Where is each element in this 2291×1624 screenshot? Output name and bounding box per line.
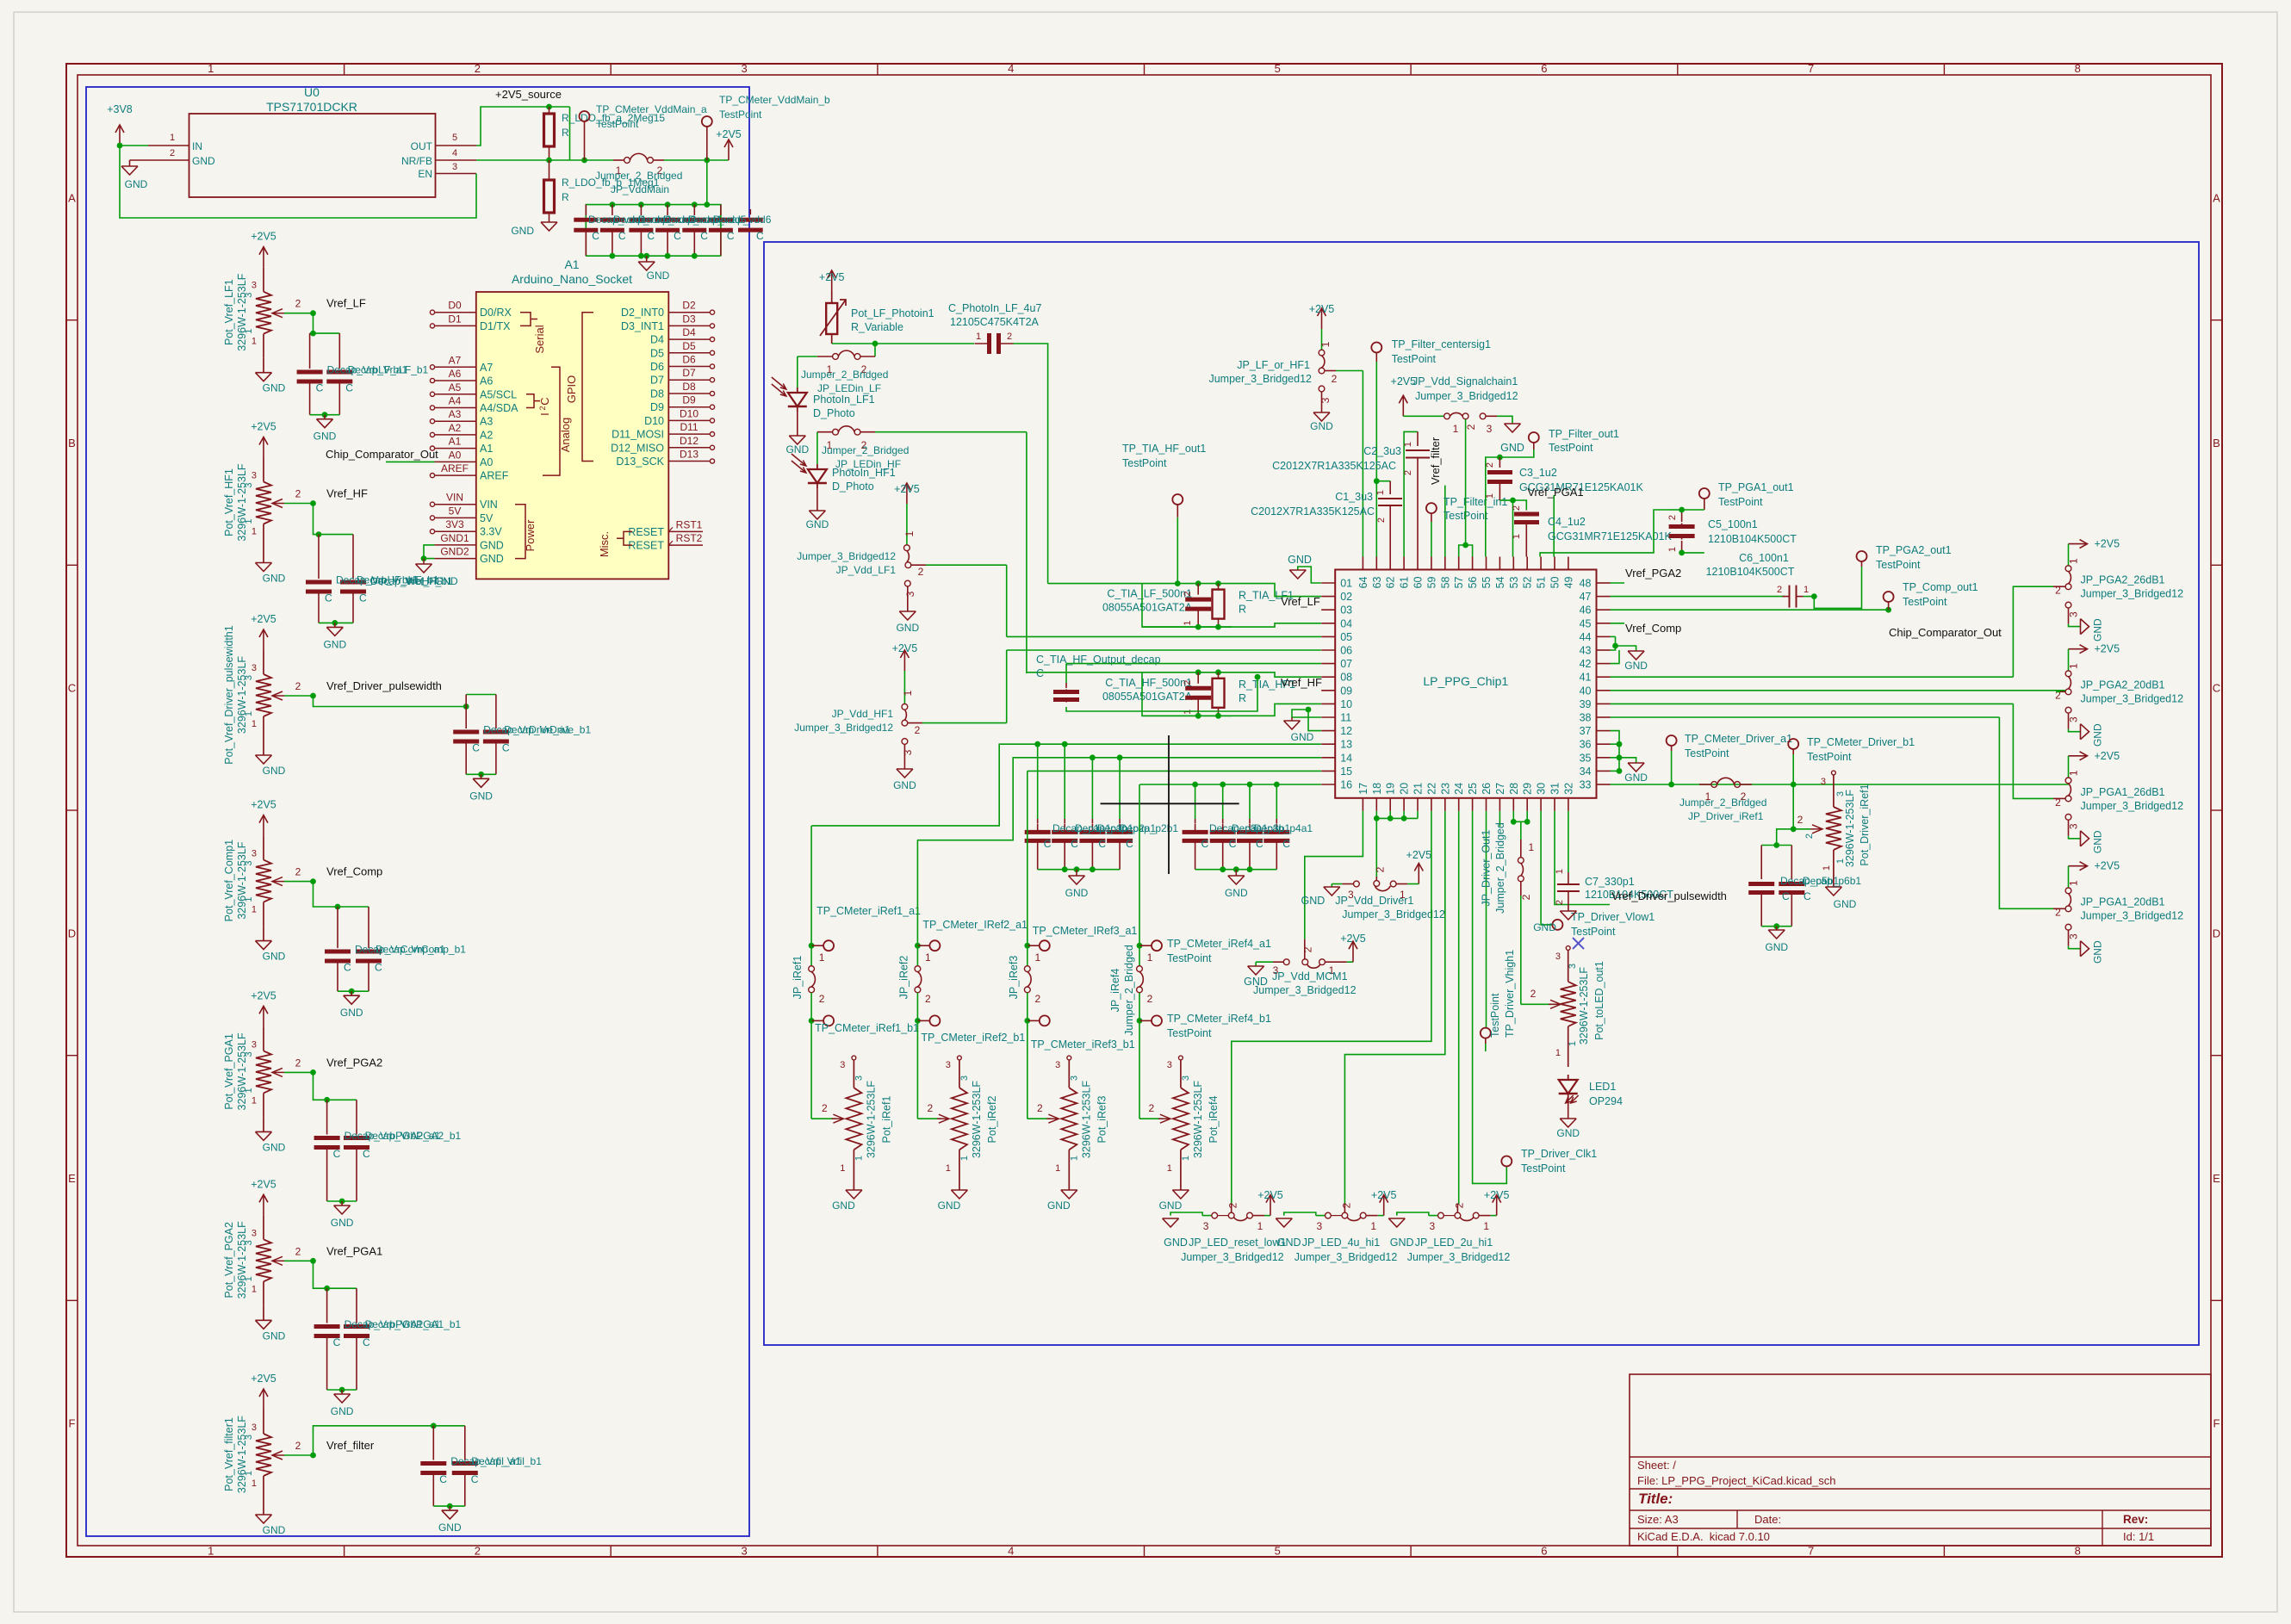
svg-text:TP_Filter_in1: TP_Filter_in1: [1444, 496, 1507, 508]
svg-text:C: C: [1201, 838, 1209, 850]
svg-text:C3_1u2: C3_1u2: [1519, 467, 1557, 479]
svg-text:Misc.: Misc.: [598, 531, 611, 557]
arduino pin A4: [435, 407, 476, 409]
jumper JP_iRef4 Jumper_2_Bridged vertical: [1139, 945, 1140, 966]
svg-text:3296W-1-253LF: 3296W-1-253LF: [236, 273, 248, 350]
svg-text:1: 1: [1512, 534, 1522, 539]
junction photoin: [872, 341, 879, 347]
decap cluster for Pot_Vref_Driver_pulsewidth1: [466, 694, 496, 696]
ground below PhotoIn_LF1: [797, 412, 798, 436]
svg-text:C2_3u3: C2_3u3: [1363, 445, 1401, 457]
svg-text:VIN: VIN: [446, 492, 463, 504]
testpoint TP_Filter_centersig1: [1371, 343, 1381, 353]
svg-text:D8: D8: [650, 388, 664, 400]
svg-text:D0/RX: D0/RX: [480, 307, 512, 319]
power +2V5 for Pot_Vref_LF1: [263, 247, 264, 268]
svg-text:Pot_Vref_HF1: Pot_Vref_HF1: [223, 468, 235, 536]
svg-text:A0: A0: [449, 449, 462, 461]
svg-text:2: 2: [1465, 424, 1477, 430]
capacitor Decap_vdd7 stub: [738, 218, 763, 222]
svg-text:C: C: [1098, 838, 1106, 850]
testpoint TP_TIA_HF_out1: [1177, 505, 1178, 518]
svg-text:JP_iRef3: JP_iRef3: [1008, 956, 1020, 1000]
chip pin 38: [1597, 716, 1611, 718]
decap cluster for Pot_Vref_HF1: [319, 534, 353, 536]
jumper JP_Vdd_HF1 Jumper_3_Bridged12: [903, 671, 905, 704]
svg-text:Decap_VrDrive_b1: Decap_VrDrive_b1: [504, 724, 591, 736]
svg-text:34: 34: [1580, 766, 1592, 778]
svg-text:JP_Driver_iRef1: JP_Driver_iRef1: [1688, 810, 1764, 822]
junction wiper Pot_Vref_PGA1: [310, 1069, 316, 1075]
svg-text:1: 1: [251, 527, 257, 537]
svg-text:3: 3: [2068, 611, 2080, 617]
testpoint TP_Filter_in1: [1426, 503, 1437, 513]
svg-text:1: 1: [1257, 1220, 1263, 1232]
arduino pin D12: [668, 447, 710, 449]
svg-text:OUT: OUT: [411, 140, 433, 152]
ground JP_Vdd_MCM1: [1248, 965, 1264, 967]
svg-text:LED1: LED1: [1589, 1081, 1616, 1093]
svg-text:3: 3: [741, 62, 747, 75]
ground arduino: [423, 559, 425, 564]
svg-text:46: 46: [1580, 604, 1592, 617]
svg-text:D12: D12: [680, 435, 698, 447]
svg-text:TP_CMeter_iRef4_a1: TP_CMeter_iRef4_a1: [1167, 938, 1271, 950]
wiper of Pot_Vref_filter1: [272, 1451, 282, 1460]
svg-text:GND: GND: [1390, 1237, 1414, 1249]
wire pin25 to TP_Driver_Clk: [1473, 811, 1507, 1184]
junction wiper Pot_Vref_Driver_pulsewidth1: [310, 693, 316, 699]
svg-text:GND: GND: [1533, 921, 1556, 933]
svg-text:Vref_Comp: Vref_Comp: [326, 865, 382, 878]
svg-text:A1: A1: [449, 436, 462, 448]
svg-text:2: 2: [1034, 993, 1040, 1005]
capacitor Decap_p3a1: [1195, 819, 1196, 823]
svg-text:JP_Vdd_Signalchain1: JP_Vdd_Signalchain1: [1412, 375, 1518, 387]
svg-text:3296W-1-253LF: 3296W-1-253LF: [1192, 1081, 1204, 1158]
svg-text:JP_LED_4u_hi1: JP_LED_4u_hi1: [1302, 1237, 1380, 1249]
chip pin 25: [1472, 798, 1474, 811]
svg-text:Decap_p2b1: Decap_p2b1: [1120, 822, 1178, 834]
svg-text:1: 1: [1147, 951, 1153, 964]
svg-text:2: 2: [475, 62, 481, 75]
chip LP_PPG_Chip1: [1335, 570, 1596, 798]
svg-text:JP_iRef4: JP_iRef4: [1109, 969, 1121, 1013]
svg-text:45: 45: [1580, 617, 1592, 629]
junction decap vdd top: [638, 201, 644, 208]
wire to Pot_iRef2: [916, 1020, 918, 1119]
testpoint TP_CMeter_Driver_a1: [1668, 782, 1674, 788]
svg-text:File: LP_PPG_Project_KiCad.kic: File: LP_PPG_Project_KiCad.kicad_sch: [1637, 1474, 1836, 1487]
svg-text:1: 1: [902, 690, 914, 696]
chip pin 61: [1403, 557, 1405, 570]
wire wiper to caps Pot_Vref_PGA1: [314, 1072, 327, 1100]
svg-text:C: C: [345, 382, 353, 394]
testpoint TP_CMeter_VddMain_a: [581, 158, 587, 164]
svg-text:GND: GND: [263, 382, 286, 394]
svg-text:TP_Filter_centersig1: TP_Filter_centersig1: [1392, 338, 1491, 350]
svg-text:GND: GND: [2092, 723, 2104, 747]
potentiometer Pot_Vref_PGA1 3296W-1-253LF: [263, 1026, 264, 1051]
svg-text:EN: EN: [418, 168, 432, 180]
wire pin 58 vertical: [1444, 486, 1446, 557]
svg-text:2: 2: [1797, 814, 1804, 826]
chip pin 64: [1362, 557, 1363, 570]
chip pin 04: [1321, 623, 1335, 624]
wire pin47 to C6: [1611, 596, 1785, 598]
svg-text:JP_PGA1_20dB1: JP_PGA1_20dB1: [2081, 896, 2165, 908]
wire pin 05 long: [1007, 635, 1321, 637]
jumper JP_iRef3 Jumper_2_Bridged vertical: [1027, 945, 1028, 966]
svg-text:JP_iRef2: JP_iRef2: [897, 956, 910, 1000]
svg-text:TP_PGA1_out1: TP_PGA1_out1: [1718, 481, 1794, 493]
svg-text:5: 5: [1275, 62, 1281, 75]
svg-text:JP_LED_2u_hi1: JP_LED_2u_hi1: [1415, 1237, 1493, 1249]
jumper JP_LED_4u_hi1 Jumper_3_Bridged12: [1276, 1218, 1292, 1219]
wire cap to chip D1: [1014, 344, 1048, 584]
decap group bottom rail: [1038, 869, 1120, 871]
arduino pin RST1: [668, 530, 703, 532]
svg-text:Rev:: Rev:: [2123, 1513, 2148, 1526]
power +2V5 JP_LED_2u_hi1: [1496, 1195, 1498, 1216]
svg-text:D7: D7: [650, 375, 664, 387]
svg-text:TP_CMeter_Driver_b1: TP_CMeter_Driver_b1: [1807, 736, 1915, 748]
chip pin 55: [1486, 557, 1487, 570]
svg-text:1: 1: [251, 1478, 257, 1489]
svg-text:+3V8: +3V8: [107, 103, 133, 115]
testpoint TestPoint TP_Driver_Vhigh1: [1481, 1028, 1491, 1038]
svg-text:2: 2: [1147, 993, 1153, 1005]
svg-text:OP294: OP294: [1589, 1095, 1623, 1107]
chip pin 51: [1540, 557, 1542, 570]
chip pin 46: [1597, 609, 1611, 611]
jumper JP_Driver_Out1 Jumper_2_Bridged vertical: [1520, 821, 1522, 840]
svg-text:Chip_Comparator_Out: Chip_Comparator_Out: [326, 448, 438, 461]
svg-text:JP_Vdd_Driver1: JP_Vdd_Driver1: [1335, 895, 1413, 907]
svg-text:Vref_filter: Vref_filter: [1429, 437, 1442, 485]
svg-text:GND: GND: [1159, 1199, 1183, 1212]
chip pin 16: [1321, 784, 1335, 785]
arduino pin D5: [668, 352, 710, 354]
wire wiper to caps Pot_Vref_Comp1: [314, 882, 338, 907]
ground decap pb: [1761, 926, 1791, 927]
svg-text:GND: GND: [1164, 1237, 1188, 1249]
wire +3V8 to IN: [120, 145, 148, 146]
svg-text:13: 13: [1340, 739, 1352, 751]
svg-text:01: 01: [1340, 578, 1352, 590]
svg-text:2: 2: [295, 298, 301, 310]
svg-text:1: 1: [208, 1545, 214, 1558]
svg-text:D6: D6: [650, 361, 664, 373]
arduino pin D0: [435, 312, 476, 313]
svg-text:VIN: VIN: [480, 499, 498, 511]
bottom rail TIA Vref_HF: [1142, 715, 1232, 716]
decap cluster for Pot_Vref_Comp1: [338, 906, 369, 908]
wire pin33 long: [1611, 784, 2069, 785]
svg-text:C: C: [674, 230, 681, 242]
power +2V5 JP_PGA2_26dB1: [2069, 543, 2088, 545]
svg-text:2: 2: [1149, 1102, 1155, 1114]
svg-text:3: 3: [452, 162, 457, 172]
svg-text:Analog: Analog: [559, 418, 572, 452]
photodiode PhotoIn_HF1 D_Photo: [816, 432, 818, 464]
wire pin 06 long: [1007, 649, 1321, 651]
power +2V5 JP_PGA2_20dB1: [2069, 648, 2088, 650]
ground C7: [1560, 910, 1576, 912]
svg-text:D9: D9: [650, 401, 664, 413]
svg-text:8: 8: [2075, 62, 2081, 75]
svg-text:GND: GND: [192, 155, 215, 167]
svg-text:3: 3: [251, 1039, 257, 1050]
svg-text:A2: A2: [449, 422, 462, 434]
svg-text:TP_CMeter_iRef1_a1: TP_CMeter_iRef1_a1: [816, 905, 921, 917]
svg-text:C: C: [363, 1336, 370, 1348]
ground below Pot_Vref_PGA1: [256, 1131, 272, 1132]
wire column JP_iRef1: [810, 826, 812, 945]
svg-text:A6: A6: [449, 368, 462, 380]
svg-text:41: 41: [1580, 672, 1592, 684]
power +2V5 for Pot_Vref_PGA1: [263, 1006, 264, 1026]
svg-text:2: 2: [295, 680, 301, 692]
svg-text:27: 27: [1494, 783, 1506, 795]
junction TP b: [704, 158, 710, 164]
wire TP_Driver_Vhigh to pot pin2 line: [1485, 1044, 1487, 1051]
capacitor Decap_p4a1: [1249, 819, 1251, 823]
chip pin 58: [1444, 557, 1446, 570]
wire wiper Pot_toLED: [1521, 1003, 1558, 1005]
svg-text:A3: A3: [480, 416, 493, 428]
wire column JP_iRef3: [1027, 771, 1028, 945]
svg-text:Vref_PGA2: Vref_PGA2: [1625, 567, 1681, 580]
potentiometer Pot_Driver_iRef1: [1832, 771, 1836, 775]
svg-text:Decap_VrbHF_b1: Decap_VrbHF_b1: [357, 574, 439, 586]
svg-text:+2V5: +2V5: [1309, 303, 1335, 315]
wire wiper to caps Pot_Vref_PGA2: [314, 1261, 327, 1288]
svg-text:GND: GND: [438, 1522, 462, 1534]
svg-text:3296W-1-253LF: 3296W-1-253LF: [236, 841, 248, 919]
svg-text:GND: GND: [263, 951, 286, 963]
svg-text:+2V5: +2V5: [1340, 933, 1366, 945]
svg-text:C: C: [1126, 838, 1133, 850]
svg-text:GND: GND: [314, 431, 337, 443]
svg-text:Jumper_3_Bridged12: Jumper_3_Bridged12: [1208, 373, 1312, 385]
svg-text:Date:: Date:: [1754, 1513, 1781, 1526]
U0 pin 3 EN: [436, 173, 477, 175]
variable resistor Pot_LF_Photoin1 R_Variable: [831, 291, 833, 303]
chip pin 43: [1597, 649, 1611, 651]
svg-text:C6_100n1: C6_100n1: [1739, 552, 1789, 564]
testpoint TP_CMeter_iRef1_b1: [810, 993, 812, 1021]
svg-text:D: D: [2213, 927, 2220, 939]
capacitor Decap_p4b1: [1276, 819, 1277, 823]
ground decap group: [1235, 870, 1237, 876]
svg-text:A: A: [2213, 191, 2220, 204]
chip pin 45: [1597, 623, 1611, 624]
wire TIA LF to chip rows: [1142, 584, 1232, 628]
svg-text:TestPoint: TestPoint: [1903, 596, 1947, 608]
svg-text:GND: GND: [1301, 895, 1326, 907]
chip pin 03: [1321, 609, 1335, 611]
chip pin 01: [1321, 582, 1335, 584]
svg-text:+2V5: +2V5: [716, 128, 742, 140]
svg-text:3: 3: [902, 749, 914, 755]
svg-text:2: 2: [1340, 1202, 1352, 1208]
svg-text:C: C: [375, 962, 382, 974]
svg-text:C_PhotoIn_LF_4u7: C_PhotoIn_LF_4u7: [948, 302, 1041, 314]
svg-text:2: 2: [1530, 988, 1537, 1000]
arduino pin D3: [668, 325, 710, 326]
svg-text:C: C: [1804, 890, 1811, 902]
testpoint TP_CMeter_iRef4_b1: [1139, 993, 1140, 1021]
svg-text:3296W-1-253LF: 3296W-1-253LF: [1578, 967, 1590, 1044]
chip pin 12: [1321, 730, 1335, 732]
svg-text:D7: D7: [682, 367, 696, 379]
svg-text:14: 14: [1340, 752, 1352, 764]
jumper JP_LED_2u_hi1 Jumper_3_Bridged12: [1388, 1218, 1405, 1219]
decap rails top: [1037, 744, 1039, 819]
chip pin 30: [1540, 798, 1542, 811]
svg-text:64: 64: [1357, 576, 1369, 588]
chip pin 15: [1321, 770, 1335, 772]
chip pin 48: [1597, 582, 1611, 584]
arduino pin AREF: [435, 474, 476, 476]
svg-text:JP_iRef1: JP_iRef1: [792, 956, 804, 1000]
svg-text:5V: 5V: [480, 512, 494, 524]
svg-text:C5_100n1: C5_100n1: [1708, 518, 1758, 530]
svg-text:Vref_PGA1: Vref_PGA1: [1527, 486, 1583, 499]
testpoint TP_Comp_out1: [1885, 607, 1891, 613]
svg-text:2: 2: [1037, 1102, 1043, 1114]
svg-text:+2V5: +2V5: [2095, 643, 2120, 655]
svg-text:A7: A7: [480, 362, 493, 374]
svg-text:3296W-1-253LF: 3296W-1-253LF: [236, 656, 248, 734]
svg-text:A0: A0: [480, 456, 493, 468]
wire col50 Vref_PGA1: [1553, 495, 1555, 557]
svg-text:A2: A2: [480, 429, 493, 441]
wire to Pot_iRef4: [1139, 1020, 1140, 1119]
svg-text:2: 2: [928, 1102, 934, 1114]
svg-text:D1/TX: D1/TX: [480, 320, 511, 332]
svg-text:JP_VddMain: JP_VddMain: [611, 183, 669, 195]
svg-text:2: 2: [170, 148, 175, 158]
svg-text:Pot_iRef2: Pot_iRef2: [986, 1096, 998, 1144]
svg-text:Pot_LF_Photoin1: Pot_LF_Photoin1: [851, 307, 934, 319]
svg-text:24: 24: [1453, 783, 1465, 795]
svg-text:2: 2: [538, 406, 547, 410]
resistor R_LDO_fb_a_2Meg15: [549, 107, 550, 114]
wiper of Pot_Vref_PGA1: [272, 1068, 282, 1076]
svg-text:C: C: [316, 382, 324, 394]
power +2V5 for Pot_Vref_HF1: [263, 437, 264, 458]
svg-text:Decap_vdd6: Decap_vdd6: [713, 214, 772, 226]
jumper JP_iRef1 Jumper_2_Bridged vertical: [810, 945, 812, 966]
wire pin26 TP_Driver_Vhigh: [1486, 811, 1487, 1028]
svg-text:1: 1: [1528, 841, 1534, 853]
capacitor Decap_p1a1: [1037, 819, 1039, 823]
svg-text:Pot_Vref_filter1: Pot_Vref_filter1: [223, 1417, 235, 1491]
svg-text:U0: U0: [304, 85, 320, 99]
testpoint TP_PGA1_out1: [1699, 488, 1710, 499]
svg-text:2: 2: [1403, 470, 1413, 475]
svg-text:+2V5: +2V5: [2095, 860, 2120, 872]
wiper of Pot_Vref_HF1: [272, 499, 282, 508]
svg-text:Jumper_2_Bridged: Jumper_2_Bridged: [595, 170, 682, 182]
svg-text:Size: A3: Size: A3: [1637, 1513, 1679, 1526]
svg-text:D: D: [68, 927, 76, 939]
power +2V5 JP_LED_4u_hi1: [1383, 1195, 1385, 1216]
junction wiper Pot_Vref_filter1: [310, 1453, 316, 1459]
svg-text:GND: GND: [480, 553, 504, 565]
svg-text:D3_INT1: D3_INT1: [621, 320, 664, 332]
svg-text:GND: GND: [1277, 1237, 1301, 1249]
potentiometer Pot_Vref_PGA2 3296W-1-253LF: [263, 1215, 264, 1239]
svg-text:Vref_filter: Vref_filter: [326, 1439, 375, 1452]
svg-text:TestPoint: TestPoint: [1521, 1162, 1566, 1175]
chip pin 54: [1499, 557, 1500, 570]
svg-text:1: 1: [840, 1163, 845, 1174]
svg-text:TestPoint: TestPoint: [1392, 353, 1437, 365]
chip pin 17: [1362, 798, 1363, 811]
svg-text:C: C: [359, 592, 367, 604]
junction decap vdd top: [610, 201, 616, 208]
svg-text:JP_Driver_Out1: JP_Driver_Out1: [1480, 829, 1492, 906]
svg-text:08055A501GAT2A: 08055A501GAT2A: [1102, 602, 1193, 614]
wire wiper to caps Pot_Vref_filter1: [314, 1426, 434, 1455]
testpoint TP_CMeter_IRef3_a1: [1024, 943, 1030, 949]
svg-text:Decap_VrbPGA1_b1: Decap_VrbPGA1_b1: [365, 1318, 462, 1330]
svg-text:2: 2: [1555, 900, 1565, 905]
svg-text:42: 42: [1580, 658, 1592, 670]
svg-text:GPIO: GPIO: [565, 375, 578, 404]
svg-text:GND: GND: [785, 443, 809, 456]
svg-text:3296W-1-253LF: 3296W-1-253LF: [236, 1416, 248, 1493]
svg-text:D4: D4: [650, 334, 664, 346]
ground JP_Vdd_HF1: [897, 768, 913, 770]
svg-text:3296W-1-253LF: 3296W-1-253LF: [236, 463, 248, 541]
svg-text:Jumper_2_Bridged: Jumper_2_Bridged: [1494, 822, 1506, 914]
svg-text:21: 21: [1412, 783, 1425, 795]
svg-text:56: 56: [1467, 576, 1479, 588]
capacitor Decap_vdd5: [693, 205, 695, 215]
svg-text:D8: D8: [682, 381, 696, 393]
arduino pin D4: [668, 338, 710, 340]
svg-text:D_Photo: D_Photo: [813, 407, 855, 419]
svg-text:1: 1: [1167, 1163, 1172, 1174]
power +2V5 JP_Vdd_LF1: [906, 483, 908, 504]
svg-text:2: 2: [295, 488, 301, 500]
decap rail bottom: [586, 255, 721, 257]
chip pin 14: [1321, 757, 1335, 759]
svg-text:+2V5: +2V5: [894, 483, 920, 495]
svg-text:GND: GND: [1225, 887, 1248, 899]
svg-text:F: F: [69, 1417, 76, 1430]
svg-text:GND: GND: [2092, 830, 2104, 853]
svg-text:Jumper_3_Bridged12: Jumper_3_Bridged12: [1295, 1251, 1398, 1263]
chip pin 49: [1568, 557, 1569, 570]
arduino pin D6: [668, 366, 710, 368]
wiper of Pot_Vref_Comp1: [272, 877, 282, 886]
U0 pin 5 OUT: [436, 145, 477, 146]
svg-text:GND: GND: [647, 270, 670, 282]
svg-text:3: 3: [1821, 777, 1826, 787]
svg-text:Vref_HF: Vref_HF: [1281, 676, 1322, 689]
potentiometer Pot_iRef2 3296W-1-253LF: [958, 1056, 962, 1060]
svg-text:TP_CMeter_IRef2_a1: TP_CMeter_IRef2_a1: [922, 919, 1028, 931]
svg-text:+2V5: +2V5: [251, 421, 276, 433]
svg-text:AREF: AREF: [480, 470, 509, 482]
jumper JP_PGA1_20dB1 Jumper_3_Bridged12: [2068, 866, 2070, 888]
wire pin44 pin43 gnd: [1611, 635, 1616, 637]
